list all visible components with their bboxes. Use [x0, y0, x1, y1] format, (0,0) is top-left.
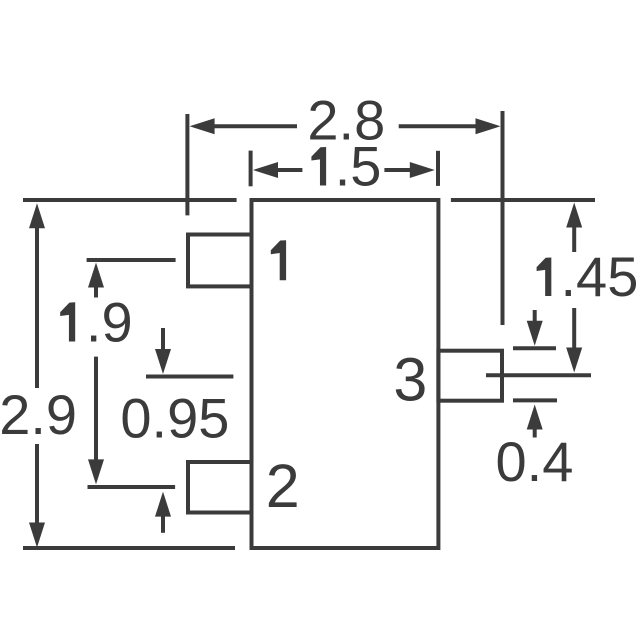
arrowhead 0.4 up [527, 405, 543, 430]
dim 0.4 down arrow shaft [533, 310, 537, 324]
shared bottom reference line (1.9 / 0.95) [88, 485, 176, 489]
svg-text:0.95: 0.95 [120, 387, 229, 450]
dim 2.9 upper shaft [35, 227, 39, 388]
arrowhead 0.95 down [155, 349, 171, 374]
dim 1.9 upper shaft [94, 287, 98, 298]
pin 3 pad [438, 351, 502, 401]
arrowhead 1.5 right [410, 162, 435, 178]
dim 0.4 bottom reference line [513, 398, 557, 402]
svg-text:2.9: 2.9 [0, 383, 77, 446]
arrowhead 0.95 up [155, 492, 171, 517]
dim 0.95 down arrow shaft [161, 328, 165, 350]
dim 1.9 top reference line [87, 258, 176, 262]
dim 1.5 left arrow shaft [276, 168, 302, 172]
arrowhead 2.9 down [29, 523, 45, 548]
bottom extension line [23, 546, 235, 550]
svg-text:.5: .5 [335, 135, 382, 198]
dim 1.45 down arrow shaft [572, 308, 576, 348]
dim 2.8 line right segment [399, 124, 477, 128]
package body outline [252, 200, 439, 548]
arrowhead 1.5 left [253, 162, 278, 178]
dim 0.95 top reference line [146, 375, 233, 379]
top-right extension line [451, 198, 595, 202]
dim 1.5 right tick [436, 151, 440, 186]
dim 2.8 line left segment [213, 124, 297, 128]
dim 1.45 up arrow shaft [572, 227, 576, 252]
arrowhead 1.9 up [88, 263, 104, 288]
dim 1.9 lower shaft [94, 357, 98, 461]
dim 1.5 left tick [249, 151, 253, 187]
svg-text:.9: .9 [86, 291, 133, 354]
pin 1 pad [188, 235, 252, 287]
pin 1 label digit one [271, 240, 286, 280]
label 1.45 digit one [537, 258, 552, 297]
pin3 mid reference line [486, 373, 591, 377]
dim 0.4 up arrow shaft [533, 426, 537, 438]
arrowhead 1.45 down [566, 348, 582, 373]
arrowhead 2.9 up [29, 203, 45, 228]
svg-text:.45: .45 [561, 245, 639, 308]
arrowhead 2.8 left [190, 118, 215, 134]
dim 1.5 right arrow shaft [384, 168, 411, 172]
arrowhead 0.4 down [527, 321, 543, 346]
pin 2 pad [188, 462, 252, 513]
dim 0.4 top reference line [513, 346, 556, 350]
arrowhead 1.45 up [566, 203, 582, 228]
top-left extension line [23, 198, 237, 202]
label 1.9 digit one [60, 302, 75, 341]
label 1.5 digit one [311, 147, 326, 186]
svg-text:2: 2 [266, 452, 300, 520]
arrowhead 2.8 right [476, 118, 501, 134]
dim 0.95 up arrow shaft [161, 516, 165, 533]
svg-text:0.4: 0.4 [496, 430, 574, 493]
dim 2.8 right extension [501, 111, 505, 325]
dim 2.9 lower shaft [35, 444, 39, 524]
svg-text:3: 3 [393, 346, 427, 414]
arrowhead 1.9 down [88, 459, 104, 484]
dim 2.8 left extension [185, 114, 189, 215]
